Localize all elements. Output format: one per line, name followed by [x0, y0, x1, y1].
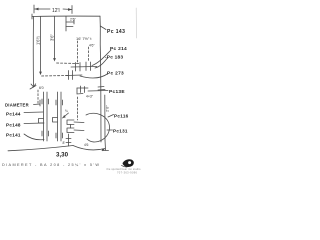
bracket vertical — [70, 125, 72, 129]
drop 1 end arrow — [31, 84, 36, 87]
hub fitting 1 — [76, 63, 81, 72]
vent pipe B double line — [57, 92, 59, 141]
vent pipe A double line — [43, 92, 45, 141]
long bottom pipe line — [8, 146, 73, 151]
vertical pipe drop 3 — [54, 17, 56, 61]
leader to PC 273 — [80, 74, 108, 79]
top pipe left end tick — [31, 14, 33, 19]
leader DIAMETER — [34, 100, 41, 106]
stack hub ticks — [98, 87, 105, 91]
hub fitting 2 — [86, 62, 91, 71]
leader PC-141 — [24, 134, 44, 140]
dashed run lower — [42, 75, 70, 78]
svg-text:8': 8' — [63, 141, 66, 145]
dashed run upper — [57, 62, 80, 65]
big loop arc — [86, 113, 110, 142]
svg-text:707-363-9096: 707-363-9096 — [117, 170, 138, 174]
bottom sweep curve — [73, 146, 105, 150]
vertical pipe drop 2 — [40, 17, 42, 75]
top horizontal pipe — [32, 15, 100, 17]
main stack upper — [99, 27, 101, 62]
leader PC-144 — [24, 111, 43, 114]
leader to PC 214 — [92, 50, 111, 66]
logo eye — [122, 159, 134, 167]
svg-text:16' 7½" t: 16' 7½" t — [76, 36, 92, 41]
leader to PC 143 — [100, 26, 106, 30]
dashed vertical mid — [77, 97, 79, 120]
svg-text:DIAMERET - BA 208 - 25¼' x 5'W: DIAMERET - BA 208 - 25¼' x 5'W — [2, 163, 99, 167]
pipe B hub low — [56, 133, 63, 138]
pipe B hub top — [56, 100, 63, 105]
svg-text:4'6": 4'6" — [89, 44, 95, 48]
svg-text:2'0": 2'0" — [105, 105, 110, 112]
left stub bracket 1 — [67, 120, 74, 125]
svg-text:Pc116: Pc116 — [114, 114, 129, 119]
svg-text:¾: ¾ — [65, 109, 68, 113]
pipe A hub top — [42, 99, 49, 104]
leader to PC-136 — [88, 90, 108, 93]
svg-text:Pc 273: Pc 273 — [107, 71, 124, 77]
svg-text:12'l: 12'l — [52, 8, 60, 14]
svg-text:6'0: 6'0 — [39, 86, 44, 90]
pipe A hub low — [42, 131, 49, 136]
leader PC-116 — [108, 115, 114, 118]
svg-text:Pc 214: Pc 214 — [110, 46, 127, 52]
fixture symbol (ladder) — [66, 17, 74, 32]
leader PC-148 — [24, 122, 44, 125]
svg-text:2'6": 2'6" — [70, 18, 77, 22]
svg-text:Pc148: Pc148 — [6, 123, 21, 128]
pipe B tee stub — [53, 118, 58, 123]
svg-text:Pc141: Pc141 — [6, 133, 21, 138]
drop 3 arrowhead — [53, 58, 56, 61]
small stub fitting with hub — [68, 134, 70, 146]
leader to PC 183 — [95, 58, 108, 68]
main stack mid — [100, 62, 102, 87]
riser corner top right — [99, 16, 101, 27]
svg-text:3,30: 3,30 — [56, 152, 69, 159]
fitting cluster horizontal pipe — [71, 66, 97, 69]
svg-text:4'6: 4'6 — [84, 143, 89, 147]
small arrow right of pipe B — [63, 113, 69, 118]
svg-text:1'6½: 1'6½ — [36, 36, 41, 45]
svg-text:-Pc 183: -Pc 183 — [105, 55, 123, 61]
faint crease line — [135, 8, 137, 38]
dashed vertical to left cluster — [37, 90, 39, 104]
svg-text:Pc131: Pc131 — [113, 129, 128, 134]
closet fitting PC-136 — [77, 86, 88, 94]
bracket connector pipe — [74, 122, 84, 131]
main stack lower double line — [100, 87, 102, 142]
svg-text:4×3": 4×3" — [86, 95, 94, 99]
svg-text:DIAMETER: DIAMETER — [5, 103, 29, 108]
svg-text:Pc144: Pc144 — [6, 112, 21, 117]
dashed vertical b — [88, 47, 90, 62]
lower hub fitting — [66, 74, 82, 77]
left stub bracket 2 — [67, 128, 74, 133]
dimension line 12'1 — [34, 5, 72, 14]
svg-text:3'6": 3'6" — [50, 34, 55, 41]
vertical pipe drop 1 (long left) — [32, 17, 34, 88]
drop 2 arrowhead — [39, 72, 42, 75]
svg-text:Pc13E: Pc13E — [109, 89, 125, 95]
svg-text:Pc 143: Pc 143 — [107, 29, 125, 35]
stack bottom end — [102, 140, 109, 151]
pipe A tee stub — [39, 119, 44, 124]
leader PC-131 — [107, 129, 113, 131]
dashed vertical a — [77, 41, 79, 62]
